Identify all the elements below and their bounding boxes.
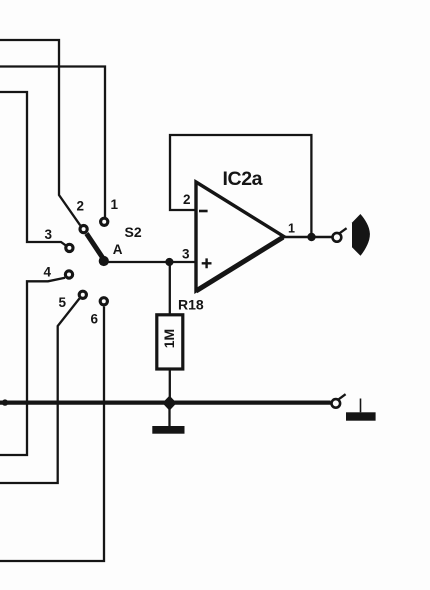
plus sign (non-inverting input) xyxy=(202,258,212,268)
wire op-amp output xyxy=(284,236,332,238)
wire from S2 contact 4 (to left edge) xyxy=(0,278,65,455)
wire from S2 contact 6 (to left edge) xyxy=(0,307,104,562)
node A (switch common dot) xyxy=(99,256,109,266)
op-amp IC2a triangle xyxy=(196,182,284,291)
svg-text:1: 1 xyxy=(111,197,119,212)
ground symbol (bus) xyxy=(152,426,184,434)
ground symbol (right, bar) xyxy=(346,412,376,420)
terminal (bus, right) xyxy=(332,399,341,408)
svg-text:5: 5 xyxy=(59,295,67,310)
svg-text:1: 1 xyxy=(288,222,295,236)
svg-text:4: 4 xyxy=(44,265,52,280)
svg-text:3: 3 xyxy=(182,247,190,262)
svg-text:A: A xyxy=(113,242,123,257)
contact 2 of S2 xyxy=(80,226,87,233)
minus sign (inverting input) xyxy=(199,210,208,213)
svg-text:R18: R18 xyxy=(178,297,204,313)
contact 6 of S2 xyxy=(100,298,107,305)
contact 5 of S2 xyxy=(79,291,86,298)
contact 1 of S2 xyxy=(101,218,108,225)
terminal tick xyxy=(339,394,346,399)
output terminal tick xyxy=(340,228,347,233)
resistor R18 body xyxy=(157,315,183,369)
output terminal xyxy=(333,233,342,242)
output arrow xyxy=(352,214,370,256)
svg-text:6: 6 xyxy=(91,312,99,327)
switch S2 wiper arm xyxy=(87,234,104,260)
wire R18 top lead xyxy=(169,262,171,315)
bus junction node (diamond) xyxy=(162,396,176,411)
svg-text:S2: S2 xyxy=(125,224,142,240)
svg-text:IC2a: IC2a xyxy=(223,168,263,190)
feedback wire pin2 to output xyxy=(170,135,311,234)
svg-text:3: 3 xyxy=(45,227,53,242)
wire R18 bottom lead xyxy=(169,368,171,400)
wire from S2 contact 5 (to left edge) xyxy=(0,299,79,484)
wire ground stem xyxy=(168,403,170,427)
junction node (R18 / pin3) xyxy=(165,258,173,266)
wire to S2 contact 3 (from left edge) xyxy=(0,92,66,245)
wire to S2 contact 2 (from left edge) xyxy=(0,40,80,225)
junction node (feedback/output) xyxy=(307,233,315,241)
wire node A to op-amp pin 3 xyxy=(104,261,196,263)
ground symbol (right, stem) xyxy=(360,399,362,413)
junction blob at left edge of bus xyxy=(2,399,8,405)
svg-text:1M: 1M xyxy=(161,329,177,348)
contact 3 of S2 xyxy=(66,244,73,251)
wire to S2 contact 1 (from left edge) xyxy=(0,67,105,218)
contact 4 of S2 xyxy=(65,271,72,278)
svg-text:2: 2 xyxy=(183,192,191,207)
svg-text:2: 2 xyxy=(77,199,85,214)
ground bus wire xyxy=(0,401,331,405)
op-amp bottom edge (thicker) xyxy=(196,237,283,291)
